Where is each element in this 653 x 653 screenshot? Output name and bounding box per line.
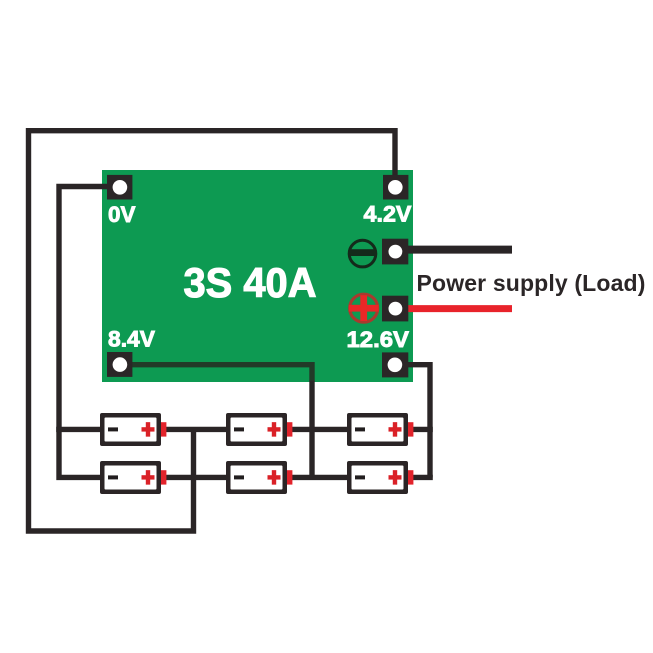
battery cell BT1 (row1 col1) [100, 413, 166, 446]
wire: 4.2V terminal up, left, down left side, along bottom, up to col1+/col2- junction [29, 131, 396, 531]
svg-text:0V: 0V [108, 202, 136, 227]
battery cell BT6 (row2 col3) [347, 461, 413, 494]
battery cell BT4 (row2 col1) [100, 461, 166, 494]
label Power supply (Load) [417, 270, 646, 296]
wire: row2 col2+ to col3- [291, 475, 349, 480]
battery cell BT2 (row1 col2) [226, 413, 292, 446]
battery cell BT5 (row2 col2) [226, 461, 292, 494]
wire: row2 col3+ to 12.6V vertical [412, 475, 433, 480]
svg-text:4.2V: 4.2V [364, 202, 412, 227]
wire: 0V terminal left and down to col1 minus terminals [59, 187, 114, 478]
svg-text:Power supply (Load): Power supply (Load) [417, 270, 646, 296]
wire: row1 col2+ to col3- [291, 427, 349, 432]
svg-text:8.4V: 8.4V [108, 327, 155, 352]
terminal pad P- [382, 239, 408, 265]
terminal pad 8.4V [107, 352, 132, 377]
label 4.2V [364, 202, 412, 227]
BMS board U1 (green PCB) [102, 170, 413, 382]
minus symbol (P- marking on board) [349, 240, 376, 267]
terminal pad 12.6V [382, 352, 408, 377]
wire: 8.4V terminal right across board then down to col2+/col3- junction [128, 365, 312, 478]
svg-text:3S 40A: 3S 40A [184, 259, 317, 306]
wire: row2 col1+ to col2- [164, 475, 228, 480]
wire: row1 col1+ to col2- [164, 427, 228, 432]
terminal pad P+ [382, 296, 408, 322]
label 8.4V [108, 327, 155, 352]
svg-text:12.6V: 12.6V [347, 327, 410, 352]
terminal pad 0V [107, 175, 132, 200]
plus symbol (P+ marking on board) [349, 294, 379, 322]
wire: P- black power lead [400, 246, 512, 254]
label 3S 40A [184, 259, 317, 306]
terminal pad 4.2V [383, 175, 408, 200]
wire: row1 col3+ to 12.6V vertical [412, 427, 433, 432]
wire: 12.6V terminal right then down to col3 plus terminals [404, 365, 430, 478]
wire: P+ red power lead [400, 305, 512, 312]
label 12.6V [347, 327, 410, 352]
label 0V [108, 202, 136, 227]
battery cell BT3 (row1 col3) [347, 413, 413, 446]
wire: branch from 0V vertical to row1 col1 minus [56, 427, 101, 432]
